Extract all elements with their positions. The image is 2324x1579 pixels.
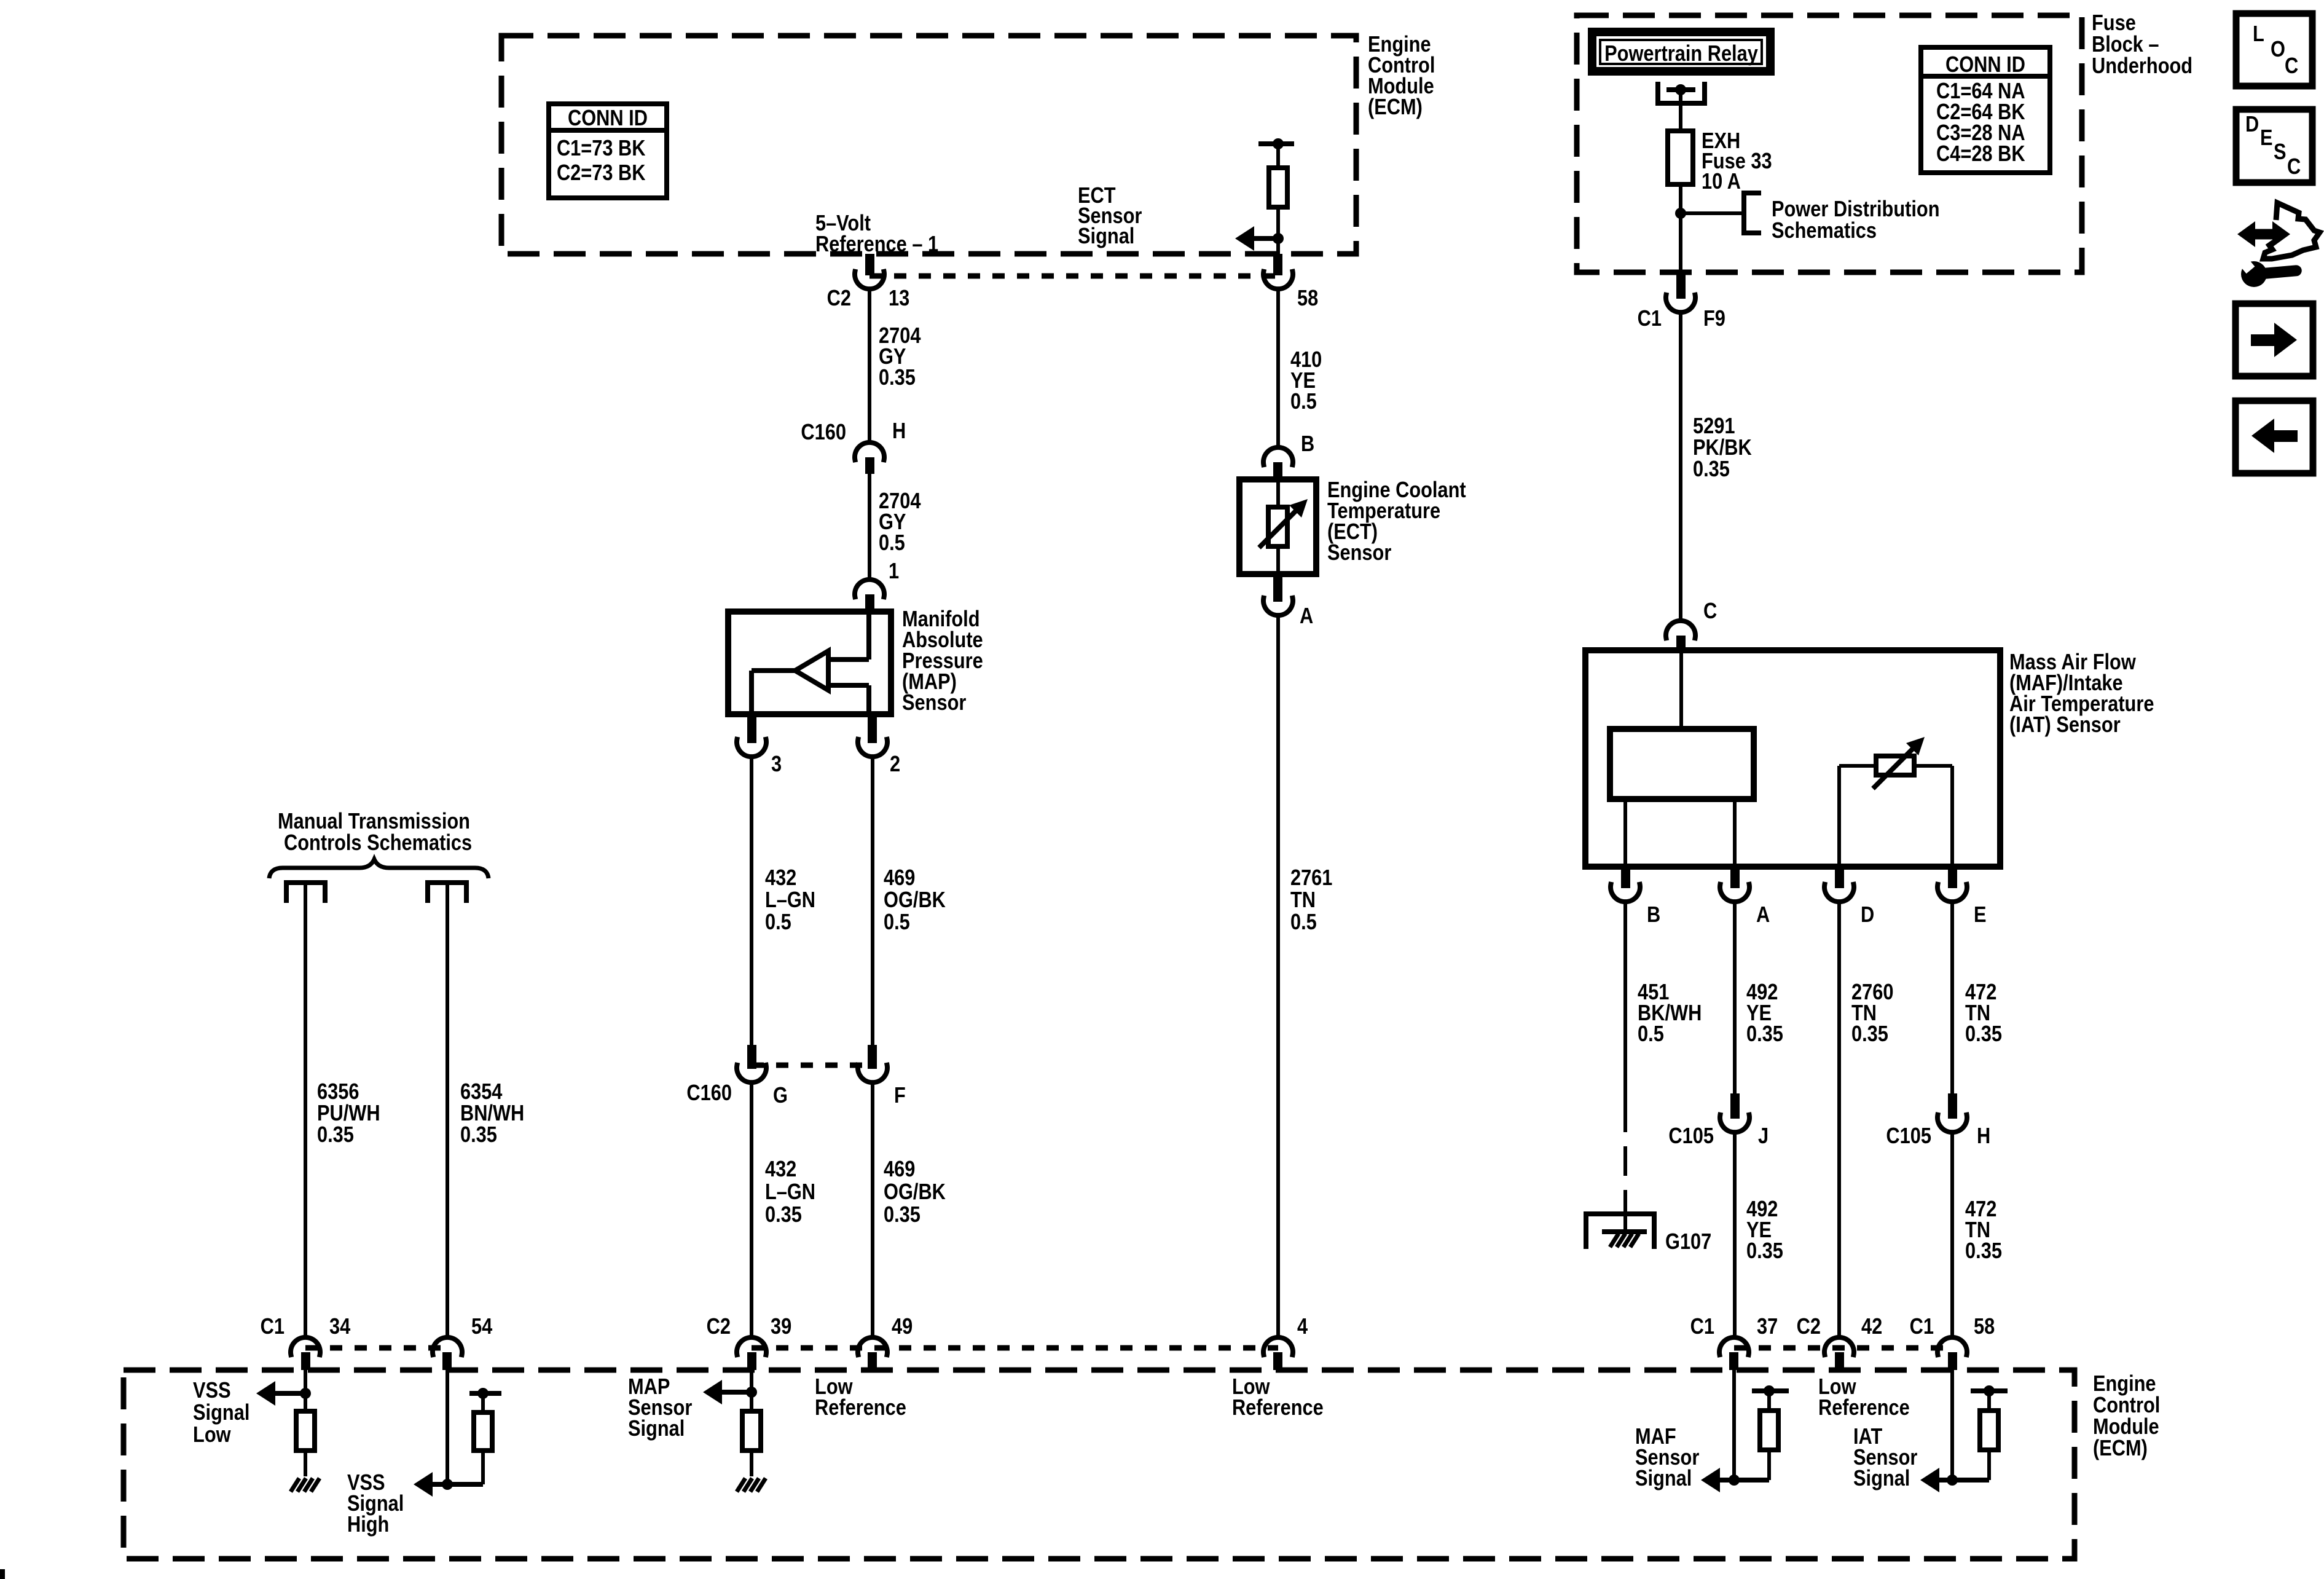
svg-text:0.5: 0.5 — [884, 910, 910, 935]
svg-text:432: 432 — [765, 1157, 796, 1182]
svg-text:6354: 6354 — [460, 1080, 503, 1105]
svg-text:Signal: Signal — [1853, 1467, 1910, 1491]
svg-text:C: C — [2287, 155, 2301, 179]
svg-text:H: H — [1977, 1124, 1990, 1149]
svg-text:C1: C1 — [1638, 307, 1662, 331]
svg-text:0.35: 0.35 — [1746, 1022, 1783, 1047]
svg-text:OG/BK: OG/BK — [884, 1180, 946, 1205]
svg-text:0.35: 0.35 — [317, 1123, 354, 1148]
svg-text:L–GN: L–GN — [765, 1180, 815, 1205]
svg-text:469: 469 — [884, 1157, 915, 1182]
svg-text:Signal: Signal — [1078, 224, 1134, 249]
svg-text:Signal: Signal — [628, 1417, 685, 1441]
svg-text:C105: C105 — [1886, 1124, 1931, 1149]
svg-text:Underhood: Underhood — [2092, 54, 2192, 79]
svg-text:Block –: Block – — [2092, 33, 2159, 57]
svg-text:3: 3 — [771, 752, 782, 777]
svg-text:C105: C105 — [1668, 1124, 1714, 1149]
svg-text:0.35: 0.35 — [1693, 457, 1730, 482]
svg-text:B: B — [1301, 432, 1314, 457]
svg-text:0.5: 0.5 — [879, 531, 905, 556]
svg-text:Module: Module — [2093, 1415, 2159, 1439]
svg-text:Low: Low — [193, 1423, 231, 1447]
svg-text:C: C — [1703, 599, 1717, 624]
svg-text:Fuse: Fuse — [2092, 11, 2136, 36]
svg-text:L: L — [2253, 22, 2264, 47]
svg-text:PU/WH: PU/WH — [317, 1101, 380, 1126]
svg-text:C2=73 BK: C2=73 BK — [557, 161, 646, 186]
svg-text:0.35: 0.35 — [1746, 1239, 1783, 1264]
svg-text:OG/BK: OG/BK — [884, 888, 946, 913]
svg-text:C2: C2 — [827, 286, 851, 311]
svg-text:0.35: 0.35 — [1851, 1022, 1888, 1047]
svg-text:C160: C160 — [686, 1081, 732, 1106]
svg-text:TN: TN — [1290, 888, 1316, 913]
svg-text:(IAT) Sensor: (IAT) Sensor — [2009, 713, 2121, 738]
svg-text:49: 49 — [892, 1315, 913, 1339]
svg-text:C2: C2 — [1797, 1315, 1821, 1339]
svg-text:39: 39 — [771, 1315, 791, 1339]
svg-text:0.5: 0.5 — [765, 910, 791, 935]
svg-text:Controls Schematics: Controls Schematics — [284, 831, 472, 856]
svg-text:54: 54 — [471, 1315, 493, 1339]
svg-text:C4=28 BK: C4=28 BK — [1936, 142, 2025, 167]
svg-text:37: 37 — [1757, 1315, 1778, 1339]
svg-text:0.35: 0.35 — [460, 1123, 497, 1148]
svg-text:A: A — [1756, 903, 1770, 927]
svg-text:432: 432 — [765, 866, 796, 891]
svg-text:Power Distribution: Power Distribution — [1772, 197, 1940, 222]
svg-text:BN/WH: BN/WH — [460, 1101, 524, 1126]
svg-text:6356: 6356 — [317, 1080, 359, 1105]
svg-text:Schematics: Schematics — [1772, 219, 1877, 243]
svg-text:A: A — [1300, 604, 1313, 629]
svg-text:C: C — [2285, 54, 2298, 79]
svg-text:C1=73 BK: C1=73 BK — [557, 136, 646, 161]
svg-text:2: 2 — [890, 752, 900, 777]
svg-text:CONN ID: CONN ID — [568, 106, 648, 131]
svg-text:High: High — [347, 1513, 389, 1537]
svg-text:469: 469 — [884, 866, 915, 891]
svg-text:C1: C1 — [261, 1315, 285, 1339]
svg-text:Signal: Signal — [193, 1401, 249, 1425]
svg-text:Powertrain Relay: Powertrain Relay — [1604, 42, 1758, 66]
svg-text:PK/BK: PK/BK — [1693, 436, 1752, 460]
svg-text:1: 1 — [889, 559, 899, 584]
svg-text:J: J — [1758, 1124, 1769, 1149]
svg-text:O: O — [2271, 37, 2285, 62]
svg-text:58: 58 — [1297, 286, 1318, 311]
svg-text:Engine: Engine — [2093, 1372, 2156, 1396]
svg-text:(ECM): (ECM) — [2093, 1436, 2148, 1461]
svg-text:F9: F9 — [1703, 307, 1725, 331]
svg-text:Manual Transmission: Manual Transmission — [278, 809, 470, 834]
svg-text:0.5: 0.5 — [1638, 1022, 1664, 1047]
svg-text:0.35: 0.35 — [1965, 1022, 2002, 1047]
svg-text:4: 4 — [1297, 1315, 1308, 1339]
svg-text:0.35: 0.35 — [879, 366, 916, 390]
svg-text:F: F — [894, 1084, 906, 1108]
svg-text:L–GN: L–GN — [765, 888, 815, 913]
svg-text:E: E — [2260, 126, 2273, 151]
svg-text:(ECM): (ECM) — [1368, 95, 1423, 120]
svg-text:34: 34 — [329, 1315, 351, 1339]
svg-text:0.5: 0.5 — [1290, 390, 1317, 414]
svg-text:E: E — [1974, 903, 1987, 927]
svg-text:2761: 2761 — [1290, 866, 1332, 891]
svg-text:Sensor: Sensor — [1327, 541, 1391, 565]
svg-text:C2: C2 — [707, 1315, 731, 1339]
svg-text:Reference: Reference — [1232, 1396, 1324, 1420]
svg-text:D: D — [2245, 112, 2259, 137]
svg-text:Sensor: Sensor — [902, 691, 966, 715]
svg-text:58: 58 — [1974, 1315, 1995, 1339]
svg-text:Reference – 1: Reference – 1 — [815, 232, 938, 257]
svg-text:S: S — [2274, 140, 2287, 165]
svg-text:13: 13 — [889, 286, 909, 311]
svg-text:G107: G107 — [1665, 1230, 1711, 1254]
svg-text:0.5: 0.5 — [1290, 910, 1317, 935]
svg-text:10 A: 10 A — [1702, 170, 1741, 194]
svg-text:Control: Control — [2093, 1393, 2160, 1418]
svg-text:D: D — [1861, 903, 1874, 927]
svg-text:H: H — [892, 419, 906, 444]
svg-text:B: B — [1647, 903, 1660, 927]
svg-text:G: G — [773, 1084, 788, 1108]
svg-text:C1: C1 — [1910, 1315, 1934, 1339]
svg-text:0.35: 0.35 — [884, 1203, 921, 1227]
svg-text:VSS: VSS — [193, 1379, 231, 1403]
svg-text:42: 42 — [1861, 1315, 1882, 1339]
svg-text:Signal: Signal — [1635, 1467, 1692, 1491]
svg-text:5291: 5291 — [1693, 414, 1735, 439]
svg-text:Reference: Reference — [1818, 1396, 1910, 1420]
svg-text:CONN ID: CONN ID — [1945, 53, 2025, 77]
svg-text:0.35: 0.35 — [765, 1203, 802, 1227]
svg-text:C1: C1 — [1690, 1315, 1714, 1339]
svg-text:Reference: Reference — [815, 1396, 906, 1420]
svg-text:C160: C160 — [801, 420, 846, 445]
svg-text:0.35: 0.35 — [1965, 1239, 2002, 1264]
